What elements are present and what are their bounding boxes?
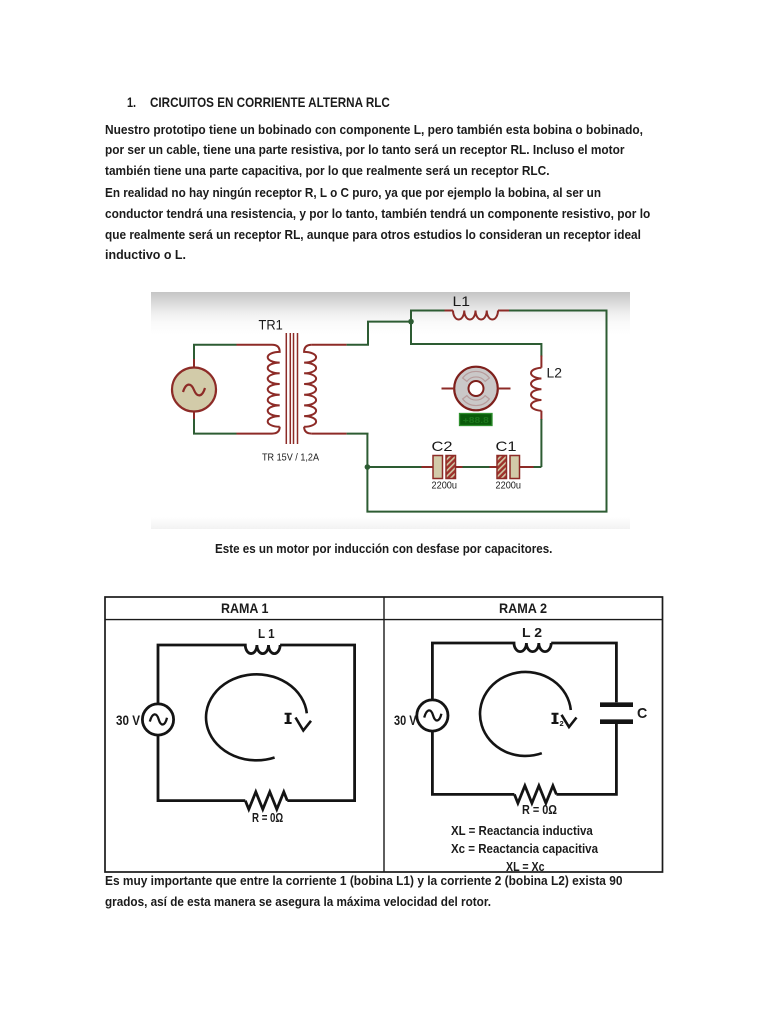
wire source top <box>194 345 237 361</box>
sine symbol rama2 source <box>424 710 441 720</box>
label L1 rama1 <box>258 628 275 641</box>
label 30V source rama2 <box>394 713 416 727</box>
wire L1 right + outer loop <box>367 311 606 512</box>
label I2 (rama2 current) <box>552 713 559 724</box>
label R=0ohm rama1 <box>252 811 283 824</box>
inductor L2 <box>540 356 542 368</box>
rama2 arrowhead <box>562 715 577 727</box>
motor body <box>454 367 498 411</box>
motor terminals <box>442 388 511 390</box>
AC source <box>172 368 216 412</box>
table borders <box>105 597 663 872</box>
wire C1 to L2 branch <box>520 466 534 468</box>
rama2 resistor R <box>514 786 556 803</box>
wire secondary bottom <box>347 433 369 435</box>
svg-text:C2: C2 <box>432 438 453 454</box>
wire source bottom <box>194 418 237 434</box>
inductor L1 <box>445 310 454 312</box>
wire junction up to L1 <box>411 311 445 322</box>
rama2 current arrow <box>480 672 571 756</box>
motor hub <box>469 381 484 396</box>
svg-text:L1: L1 <box>453 293 471 309</box>
transformer secondary leads <box>312 345 347 434</box>
svg-text:C1: C1 <box>496 438 517 454</box>
label I (rama1 current) <box>285 713 292 724</box>
label L2 rama2 <box>522 626 542 639</box>
sine symbol rama1 source <box>150 714 167 724</box>
svg-text:+88.8: +88.8 <box>463 415 489 425</box>
screenshot background <box>151 292 630 529</box>
svg-text:TR 15V / 1,2A: TR 15V / 1,2A <box>262 451 319 463</box>
rama1 arrowhead <box>296 718 312 731</box>
rama1 current arrow <box>206 674 307 760</box>
sine symbol in AC source <box>183 385 205 396</box>
wire junction to L2 top <box>411 322 541 357</box>
capacitor C2 <box>433 456 443 479</box>
node junction A <box>408 319 414 325</box>
label R=0ohm rama2 <box>522 803 557 816</box>
transformer TR1 secondary coil <box>304 345 316 427</box>
node junction B <box>365 464 371 470</box>
transformer TR1 primary coil <box>268 345 280 427</box>
rama2 source 30V <box>417 700 448 731</box>
rama2 capacitor C <box>600 705 633 722</box>
svg-text:2200u: 2200u <box>432 479 458 491</box>
wire junction B to C2 <box>367 466 421 468</box>
rama1 loop + inductor L1 <box>158 645 355 801</box>
capacitor C1 <box>497 456 507 479</box>
svg-text:2: 2 <box>560 719 564 728</box>
display +88.8 <box>460 414 493 426</box>
rama2 loop + inductor L2 <box>432 643 616 702</box>
transformer TR1 core <box>286 333 297 444</box>
motor slots <box>463 371 490 381</box>
rama1 source 30V <box>142 704 173 735</box>
wire secondary top to junction <box>347 322 411 345</box>
wire C2 to C1 <box>456 466 463 468</box>
rama1 resistor R <box>245 792 287 809</box>
svg-text:L2: L2 <box>547 365 563 381</box>
label C rama2 <box>637 706 647 721</box>
svg-text:2200u: 2200u <box>496 479 522 491</box>
svg-text:TR1: TR1 <box>259 316 283 332</box>
label 30V source rama1 <box>116 713 140 727</box>
